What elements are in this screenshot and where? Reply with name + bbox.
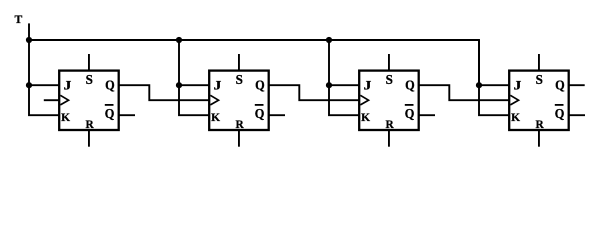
wire: FF2 R clear stub [238,130,240,147]
svg-text:J: J [514,79,522,93]
wire: FF1 Q-bar output stub [119,114,135,116]
wire: FF1 J input branch [29,84,59,86]
junction dot FF1 J branch [26,82,32,88]
svg-text:R: R [535,118,544,131]
svg-text:K: K [211,111,221,124]
junction dot FF4 J branch [476,82,482,88]
svg-text:T: T [15,12,23,26]
FF3 clock edge triangle [360,95,368,105]
FF2 pin label Q-bar [255,105,265,121]
wire: FF4 J input branch [479,84,509,86]
FF1 pin label Q-bar [105,105,115,121]
wire: toggle rail drop to FF1 K level [29,40,59,115]
JK flip-flop FF4 body [509,71,569,130]
FF3 pin label Q-bar [405,105,415,121]
svg-text:Q: Q [105,77,115,93]
wire: FF4 Q-bar output stub [569,114,585,116]
svg-text:J: J [64,79,72,93]
wire: toggle rail drop to FF2 K level [179,40,209,115]
svg-text:Q: Q [105,105,115,121]
wire: FF4 R clear stub [538,130,540,147]
svg-text:K: K [61,111,71,124]
wire: Q of FF2 to clock of FF3 [269,85,360,100]
junction dot on toggle rail at x=179.0 [176,37,182,43]
wire: FF2 J input branch [179,84,209,86]
wire: T input vertical drop [28,23,30,40]
FF4 clock edge triangle [510,95,518,105]
svg-text:S: S [386,72,393,87]
svg-text:Q: Q [255,105,265,121]
JK flip-flop FF2 body [209,71,269,130]
svg-text:Q: Q [405,105,415,121]
svg-text:R: R [235,118,244,131]
svg-text:K: K [511,111,521,124]
FF1 clock edge triangle [60,95,68,105]
wire: FF3 R clear stub [388,130,390,147]
JK flip-flop FF1 body [59,71,118,130]
wire: top toggle rail T [29,39,479,41]
wire: FF3 Q-bar output stub [419,114,435,116]
svg-text:Q: Q [555,77,565,93]
wire: FF1 clock input stub [44,99,59,101]
FF2 clock edge triangle [210,95,218,105]
svg-text:S: S [86,72,93,87]
svg-text:S: S [236,72,243,87]
junction dot FF2 J branch [176,82,182,88]
JK flip-flop FF3 body [359,71,419,130]
svg-text:Q: Q [405,77,415,93]
svg-text:R: R [85,118,94,131]
FF4 pin label Q-bar [555,105,565,121]
wire: toggle rail drop to FF4 K level [479,40,509,115]
wire: toggle rail drop to FF3 K level [329,40,359,115]
svg-text:J: J [214,79,222,93]
svg-text:Q: Q [255,77,265,93]
wire: FF2 Q-bar output stub [269,114,285,116]
junction dot on toggle rail at x=329.0 [326,37,332,43]
wire: rail corner drop to FF4 [478,39,480,85]
svg-text:R: R [385,118,394,131]
junction dot FF3 J branch [326,82,332,88]
wire: FF4 S preset stub [538,54,540,71]
wire: FF4 Q output stub [569,84,585,86]
wire: FF3 S preset stub [388,54,390,71]
junction dot on toggle rail at x=29.0 [26,37,32,43]
wire: FF2 S preset stub [238,54,240,71]
wire: FF3 J input branch [329,84,359,86]
wire: FF1 R clear stub [88,130,90,147]
wire: Q of FF3 to clock of FF4 [419,85,510,100]
svg-text:S: S [536,72,543,87]
svg-text:K: K [361,111,371,124]
svg-text:Q: Q [555,105,565,121]
svg-text:J: J [364,79,372,93]
wire: Q of FF1 to clock of FF2 [119,85,210,100]
wire: FF1 S preset stub [88,54,90,71]
